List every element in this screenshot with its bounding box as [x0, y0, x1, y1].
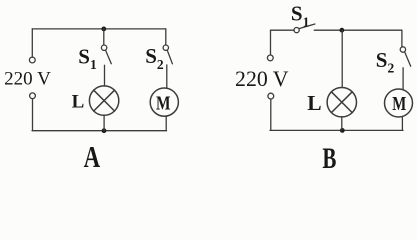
switch S1 (circuit B) — [294, 24, 315, 33]
svg-text:S2: S2 — [376, 48, 395, 76]
svg-text:L: L — [72, 91, 85, 112]
switch S2 (circuit B) — [400, 47, 411, 66]
wire: circuit A bottom bus — [32, 130, 166, 132]
wire: S1 to lamp (circuit A) — [104, 65, 106, 86]
wire: S2 to motor (circuit A) — [166, 65, 168, 88]
source terminal bottom (220 V supply, circuit A) — [30, 93, 36, 99]
wire: lamp to bottom bus (circuit A) — [103, 115, 105, 130]
source terminal top (220 V supply, circuit A) — [29, 57, 35, 63]
svg-text:M: M — [392, 93, 406, 115]
wire: circuit A left rail lower — [32, 99, 34, 131]
source terminal bottom (220 V supply, circuit B) — [268, 93, 274, 99]
switch S1 (circuit A) — [101, 29, 111, 64]
svg-text:M: M — [156, 92, 171, 114]
svg-text:220 V: 220 V — [4, 68, 51, 89]
node: bottom junction circuit A — [102, 128, 107, 133]
wire: circuit A top bus — [32, 28, 166, 30]
source terminal top (220 V supply, circuit B) — [267, 55, 273, 61]
motor M (circuit A) — [150, 88, 178, 116]
lamp L (circuit B) — [327, 88, 356, 117]
wire: circuit B left rail lower — [270, 99, 272, 130]
wire: top junction to lamp (circuit B) — [341, 30, 343, 87]
wire: circuit B bottom bus — [270, 129, 403, 131]
wire: circuit B right rail upper — [401, 30, 403, 47]
node: bottom junction circuit B — [340, 128, 345, 133]
svg-text:L: L — [307, 91, 321, 115]
node: top junction circuit A — [101, 27, 106, 32]
svg-text:S1: S1 — [291, 2, 310, 30]
wire: motor to bottom bus (circuit B) — [401, 116, 403, 130]
wire: circuit B top bus right segment — [314, 29, 402, 31]
wire: motor to bottom bus (circuit A) — [165, 116, 167, 131]
wire: circuit A left rail upper — [31, 29, 33, 57]
wire: circuit B left rail upper — [270, 30, 272, 55]
svg-text:S2: S2 — [145, 44, 164, 72]
wire: S2 to motor (circuit B) — [402, 68, 404, 90]
svg-text:B: B — [322, 142, 336, 170]
motor M (circuit B) — [385, 89, 413, 117]
lamp L (circuit A) — [89, 86, 118, 115]
wire: lamp to bottom bus (circuit B) — [341, 117, 343, 130]
svg-text:S1: S1 — [78, 44, 97, 72]
switch S2 (circuit A) — [163, 29, 172, 64]
svg-text:A: A — [84, 139, 101, 170]
node: top junction circuit B — [340, 28, 345, 33]
wire: circuit B top bus left segment — [271, 29, 295, 31]
svg-text:220 V: 220 V — [235, 67, 289, 91]
